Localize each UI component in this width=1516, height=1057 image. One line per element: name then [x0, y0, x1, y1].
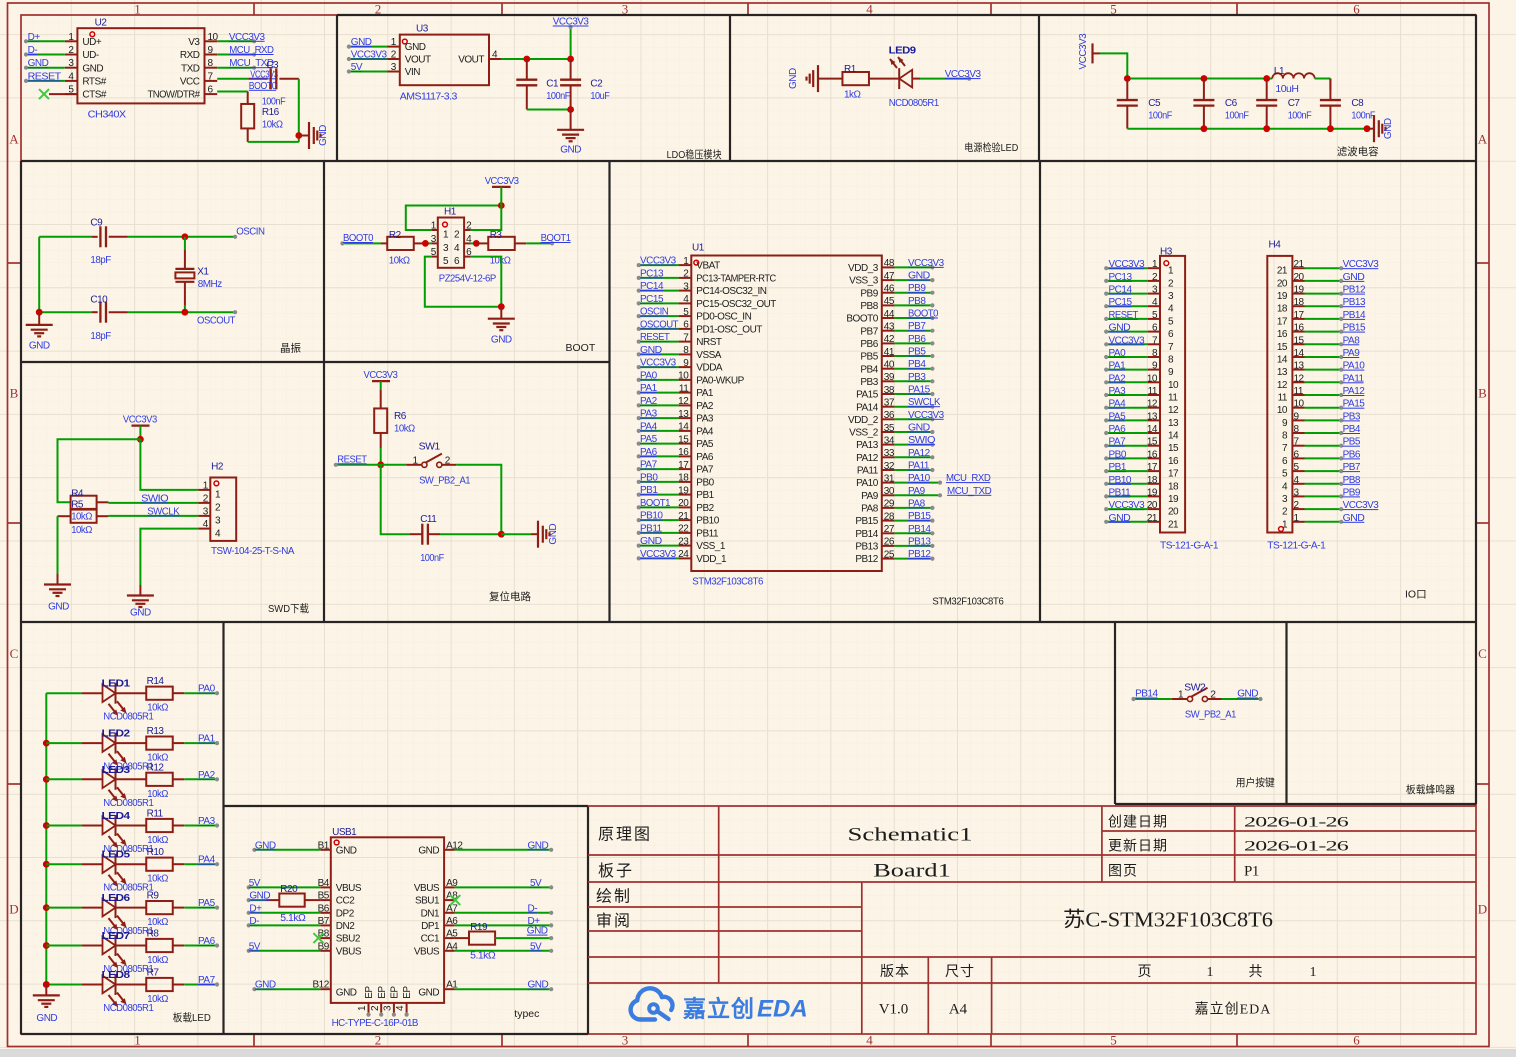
svg-text:D-: D-	[28, 45, 38, 56]
svg-text:29: 29	[884, 499, 895, 510]
svg-text:OSCIN: OSCIN	[236, 227, 265, 238]
svg-text:VDD_2: VDD_2	[848, 415, 879, 426]
svg-text:PA10: PA10	[1343, 361, 1366, 372]
H3 pin 16 net PB0	[1104, 449, 1179, 467]
svg-text:V1.0: V1.0	[879, 1002, 909, 1018]
svg-text:8MHz: 8MHz	[198, 279, 222, 290]
svg-text:CTS#: CTS#	[82, 90, 107, 101]
svg-text:VCC3V3: VCC3V3	[640, 358, 677, 369]
svg-text:10kΩ: 10kΩ	[147, 835, 169, 846]
svg-text:RXD: RXD	[180, 50, 200, 61]
H4 pin 2 net VCC3V3	[1282, 500, 1379, 517]
resistor R20 5.1k to CC2	[247, 884, 321, 924]
H3 pin 9 net PA1	[1104, 361, 1174, 379]
svg-text:10: 10	[1168, 380, 1179, 391]
svg-text:20: 20	[1294, 272, 1305, 283]
svg-text:PB5: PB5	[908, 347, 926, 358]
svg-text:R13: R13	[147, 726, 165, 737]
H4 pin 13 net PA10	[1277, 361, 1365, 379]
svg-text:PB6: PB6	[1343, 449, 1361, 460]
svg-text:D: D	[9, 902, 18, 917]
svg-text:5: 5	[1110, 1033, 1117, 1048]
svg-text:GND: GND	[491, 335, 512, 346]
wire L1 to C8	[1315, 79, 1331, 91]
svg-text:PA2: PA2	[696, 401, 714, 412]
no-connect X SBU2 B8	[313, 933, 323, 943]
svg-text:PB10: PB10	[696, 516, 719, 527]
wire PA2	[184, 770, 219, 782]
svg-text:板子: 板子	[598, 862, 634, 880]
U1 pin 28 PB15 / net PB15	[855, 511, 934, 527]
svg-text:STM32F103C8T6: STM32F103C8T6	[932, 596, 1003, 608]
svg-text:共: 共	[1249, 964, 1264, 980]
wire H1 pin4 to R3	[471, 240, 480, 247]
U1 pin 47 VSS_3 / net GND	[849, 271, 934, 287]
svg-text:BOOT: BOOT	[566, 342, 596, 354]
wire PA3	[184, 816, 219, 828]
H3 pin 1 net VCC3V3	[1104, 259, 1174, 277]
svg-text:PB14: PB14	[1135, 689, 1158, 700]
svg-text:VCC3V3: VCC3V3	[908, 258, 945, 269]
svg-text:图页: 图页	[1108, 865, 1138, 880]
svg-text:VOUT: VOUT	[458, 55, 484, 66]
wire 5V B9	[247, 941, 321, 953]
svg-text:R14: R14	[147, 676, 165, 687]
svg-text:VCC3V3: VCC3V3	[485, 176, 520, 187]
svg-text:嘉立创EDA: 嘉立创EDA	[1195, 1002, 1272, 1018]
LED LED8 NCD0805R1	[46, 969, 154, 1014]
svg-text:DP2: DP2	[336, 908, 355, 919]
svg-text:VIN: VIN	[405, 67, 420, 78]
wire RESET pin4	[24, 71, 65, 83]
U1 pin 8 VSSA / net GND	[637, 345, 722, 361]
svg-text:1: 1	[1310, 965, 1317, 980]
svg-text:R12: R12	[147, 762, 165, 773]
U1 pin 35 VSS_2 / net GND	[849, 423, 934, 439]
svg-text:H1: H1	[444, 207, 457, 218]
svg-text:15: 15	[1277, 342, 1288, 353]
svg-text:PB7: PB7	[908, 321, 926, 332]
svg-text:43: 43	[884, 322, 895, 333]
svg-text:21: 21	[1168, 519, 1179, 530]
U1 pin 11 PA1 / net PA1	[637, 383, 714, 399]
svg-text:PB5: PB5	[1343, 437, 1361, 448]
resistor R19 5.1k to CC1	[455, 922, 554, 962]
resistor R16 10k	[241, 92, 283, 142]
svg-text:板载LED: 板载LED	[173, 1011, 211, 1024]
svg-text:VDDA: VDDA	[696, 363, 723, 374]
U1 pin 39 PB3 / net PB3	[860, 372, 934, 388]
svg-text:47: 47	[884, 271, 895, 282]
svg-text:1kΩ: 1kΩ	[844, 90, 862, 101]
wire GND A12	[455, 840, 554, 852]
svg-text:R7: R7	[147, 968, 160, 979]
svg-text:GND: GND	[336, 988, 357, 999]
USB1 pin A6 DP1	[421, 916, 458, 932]
power flag VCC3V3 (filter)	[1078, 33, 1100, 70]
resistor R1 1k	[842, 64, 869, 101]
svg-text:39: 39	[884, 372, 895, 383]
svg-text:NCD0805R1: NCD0805R1	[889, 98, 940, 109]
svg-text:10: 10	[1294, 399, 1305, 410]
svg-text:BOOT0: BOOT0	[908, 309, 939, 320]
svg-text:电源检验LED: 电源检验LED	[964, 141, 1018, 154]
svg-text:19: 19	[1147, 487, 1158, 498]
svg-text:48: 48	[884, 258, 895, 269]
svg-text:BOOT1: BOOT1	[640, 498, 671, 509]
H3 pin 18 net PB10	[1104, 475, 1179, 493]
svg-text:GND: GND	[560, 145, 581, 156]
U1 pin 23 VSS_1 / net GND	[637, 536, 726, 552]
svg-text:PA8: PA8	[1343, 335, 1361, 346]
resistor R12 10k	[115, 762, 184, 800]
svg-text:PB13: PB13	[855, 542, 878, 553]
svg-text:27: 27	[884, 524, 895, 535]
resistor R8 10k	[115, 929, 184, 967]
svg-text:PC14-OSC32_IN: PC14-OSC32_IN	[696, 286, 766, 297]
svg-text:PB8: PB8	[908, 296, 926, 307]
svg-text:HC-TYPE-C-16P-01B: HC-TYPE-C-16P-01B	[332, 1018, 419, 1029]
svg-text:PA15: PA15	[856, 390, 879, 401]
USB1 pin A7 DN1	[421, 903, 459, 919]
H4 pin 18 net PB13	[1277, 297, 1366, 315]
H3 pin 11 net PA3	[1104, 386, 1178, 404]
svg-text:GND: GND	[29, 341, 50, 352]
svg-text:VBUS: VBUS	[336, 946, 362, 957]
USB1 pin B9 VBUS	[318, 941, 362, 957]
USB1 pin A5 CC1	[421, 929, 459, 945]
U1 pin 1 VBAT / net VCC3V3	[637, 256, 720, 272]
svg-text:原理图: 原理图	[598, 827, 652, 844]
resistor R13 10k	[115, 726, 184, 764]
svg-text:PB15: PB15	[908, 511, 931, 522]
svg-text:PA11: PA11	[1343, 373, 1365, 384]
wire D+ B6	[247, 903, 321, 915]
svg-text:18: 18	[1168, 481, 1179, 492]
H4 pin 17 net PB14	[1277, 310, 1366, 328]
svg-text:RESET: RESET	[28, 71, 61, 82]
USB1 pin A12 GND	[418, 840, 463, 856]
USB1 pin A9 VBUS	[414, 878, 458, 894]
svg-text:PA9: PA9	[908, 486, 926, 497]
resistor R9 10k	[115, 891, 184, 929]
svg-text:GND: GND	[351, 37, 372, 48]
svg-text:C: C	[1478, 646, 1487, 661]
capacitor C6 100nF	[1193, 79, 1248, 129]
svg-text:19: 19	[1168, 494, 1179, 505]
svg-text:VCC3V3: VCC3V3	[945, 69, 982, 80]
svg-text:用户按键: 用户按键	[1236, 776, 1275, 789]
svg-text:PA3: PA3	[198, 816, 216, 827]
wire D+ pin1	[24, 32, 65, 44]
svg-text:GND: GND	[130, 608, 151, 619]
U1 pin 17 PA7 / net PA7	[637, 460, 714, 476]
svg-text:STM32F103C8T6: STM32F103C8T6	[692, 577, 764, 588]
svg-text:PB11: PB11	[696, 529, 719, 540]
capacitor C1 100nF	[516, 59, 570, 110]
svg-text:SW1: SW1	[419, 442, 441, 453]
svg-text:10kΩ: 10kΩ	[147, 874, 169, 885]
svg-text:19: 19	[678, 485, 689, 496]
svg-text:尺寸: 尺寸	[945, 964, 975, 980]
svg-text:VCC3V3: VCC3V3	[640, 256, 677, 267]
svg-text:R19: R19	[470, 922, 488, 933]
svg-text:VCC3V3: VCC3V3	[1109, 335, 1146, 346]
svg-text:PB0: PB0	[696, 478, 714, 489]
svg-text:PB13: PB13	[1343, 297, 1366, 308]
svg-text:PA15: PA15	[1343, 399, 1366, 410]
H3 pin 10 net PA2	[1104, 373, 1179, 391]
svg-text:GND: GND	[640, 345, 662, 356]
wire D- pin2	[24, 45, 65, 57]
svg-text:21: 21	[1277, 266, 1288, 277]
U1 pin 38 PA15 / net PA15	[856, 385, 934, 401]
svg-text:PC15: PC15	[1109, 297, 1133, 308]
svg-text:GND: GND	[36, 1013, 57, 1024]
svg-text:14: 14	[1294, 348, 1305, 359]
svg-text:PA11: PA11	[857, 466, 879, 477]
svg-text:RESET: RESET	[1109, 310, 1139, 321]
svg-text:30: 30	[884, 486, 895, 497]
svg-text:VBUS: VBUS	[414, 946, 440, 957]
svg-text:B: B	[1478, 386, 1487, 401]
USB1 pin B7 DN2	[318, 916, 356, 932]
svg-text:R1: R1	[844, 64, 857, 75]
svg-text:GND: GND	[418, 845, 439, 856]
svg-text:PZ254V-12-6P: PZ254V-12-6P	[439, 274, 497, 285]
svg-text:VDD_1: VDD_1	[696, 554, 727, 565]
H4 pin 15 net PA8	[1277, 335, 1360, 353]
svg-text:36: 36	[884, 410, 895, 421]
svg-text:38: 38	[884, 385, 895, 396]
svg-text:17: 17	[678, 460, 689, 471]
svg-text:LDO稳压模块: LDO稳压模块	[667, 148, 722, 161]
USB1 pin B12 GND	[313, 980, 357, 999]
svg-text:EP: EP	[377, 986, 388, 999]
svg-text:PB15: PB15	[1343, 323, 1366, 334]
U1 pin 34 PA13 / net SWIO	[856, 435, 936, 451]
svg-text:12: 12	[1147, 399, 1158, 410]
svg-text:板载蜂鸣器: 板载蜂鸣器	[1406, 783, 1455, 796]
svg-text:11: 11	[679, 383, 689, 394]
svg-text:21: 21	[678, 511, 689, 522]
svg-text:GND: GND	[336, 845, 357, 856]
svg-text:绘制: 绘制	[596, 888, 632, 906]
svg-text:5.1kΩ: 5.1kΩ	[470, 951, 496, 962]
svg-text:Board1: Board1	[873, 861, 951, 882]
svg-text:EP: EP	[402, 986, 413, 999]
svg-text:PA7: PA7	[198, 975, 216, 986]
power flag VCC3V3 (BOOT)	[485, 176, 520, 196]
svg-text:GND: GND	[548, 524, 559, 545]
svg-text:LED7: LED7	[102, 930, 131, 942]
node VCC3V3 top	[553, 17, 590, 60]
svg-text:37: 37	[884, 398, 895, 409]
svg-text:PB14: PB14	[855, 529, 878, 540]
svg-text:UD-: UD-	[82, 50, 98, 61]
U1 pin 14 PA4 / net PA4	[637, 421, 714, 437]
wire MCU_TXD pin8	[217, 58, 274, 70]
crystal X1 8MHz	[175, 237, 222, 312]
svg-text:GND: GND	[1109, 513, 1131, 524]
svg-text:LED1: LED1	[102, 678, 131, 690]
wire PA6	[184, 936, 219, 948]
svg-text:SBU1: SBU1	[415, 896, 440, 907]
svg-text:17: 17	[1147, 462, 1158, 473]
H4 pin 16 net PB15	[1277, 323, 1366, 341]
capacitor C8 100nF	[1320, 79, 1375, 129]
svg-text:页: 页	[1138, 965, 1153, 980]
svg-text:TSW-104-25-T-S-NA: TSW-104-25-T-S-NA	[211, 546, 295, 557]
svg-text:34: 34	[884, 435, 895, 446]
svg-text:PB3: PB3	[1343, 411, 1361, 422]
svg-text:15: 15	[1147, 437, 1158, 448]
svg-text:18: 18	[1277, 304, 1288, 315]
wire PA5	[184, 898, 219, 910]
U1 pin 12 PA2 / net PA2	[637, 396, 714, 412]
wire SW1 to C11 right	[456, 465, 501, 534]
svg-text:100nF: 100nF	[546, 91, 570, 102]
U1 pin 16 PA6 / net PA6	[637, 447, 714, 463]
svg-text:RESET: RESET	[640, 332, 670, 343]
U1 pin 33 PA12 / net PA12	[856, 448, 934, 464]
U1 pin 2 PC13-TAMPER-RTC / net PC13	[637, 268, 776, 284]
svg-text:复位电路: 复位电路	[489, 590, 531, 603]
svg-text:18: 18	[678, 473, 689, 484]
U1 pin 15 PA5 / net PA5	[637, 434, 714, 450]
svg-text:PB6: PB6	[860, 339, 878, 350]
U1 pin 32 PA11 / net PA11	[857, 461, 935, 477]
USB1 pin EP3	[383, 986, 401, 1017]
svg-text:PB12: PB12	[855, 554, 878, 565]
svg-text:C9: C9	[90, 218, 103, 229]
svg-text:PB15: PB15	[855, 516, 878, 527]
svg-text:OSCOUT: OSCOUT	[640, 319, 678, 330]
ground GND (U2)	[299, 122, 329, 149]
svg-text:PA0-WKUP: PA0-WKUP	[696, 376, 744, 387]
U1 pin 22 PB11 / net PB11	[637, 523, 719, 539]
svg-text:MCU_TXD: MCU_TXD	[947, 486, 992, 497]
svg-text:审阅: 审阅	[596, 912, 632, 930]
wire D+ A6	[455, 916, 554, 928]
svg-text:PA3: PA3	[696, 414, 714, 425]
svg-text:20: 20	[1147, 500, 1158, 511]
svg-text:PD1-OSC_OUT: PD1-OSC_OUT	[696, 325, 762, 336]
U1 pin 37 PA14 / net SWCLK	[856, 397, 941, 413]
svg-text:PB3: PB3	[908, 372, 926, 383]
svg-text:UD+: UD+	[82, 37, 101, 48]
svg-text:10kΩ: 10kΩ	[147, 789, 169, 800]
capacitor C11 100nF	[410, 514, 444, 564]
U1 pin 42 PB6 / net PB6	[860, 334, 934, 350]
svg-text:PA6: PA6	[640, 447, 658, 458]
resistor R6 10k	[374, 390, 415, 448]
svg-text:46: 46	[884, 284, 895, 295]
wire SWIO	[108, 493, 198, 504]
svg-text:15: 15	[678, 434, 689, 445]
svg-text:PA2: PA2	[1109, 373, 1127, 384]
svg-text:VCC3V3: VCC3V3	[640, 549, 677, 560]
svg-text:C7: C7	[1288, 98, 1301, 109]
svg-text:VCC: VCC	[180, 77, 200, 88]
wire VCC3V3 pin10	[217, 32, 265, 44]
U1 pin 20 PB2 / net BOOT1	[637, 498, 715, 514]
svg-text:GND: GND	[1383, 118, 1394, 139]
U1 pin 43 PB7 / net PB7	[860, 321, 934, 337]
svg-text:PD0-OSC_IN: PD0-OSC_IN	[696, 312, 751, 323]
H4 pin 20 net GND	[1277, 272, 1365, 290]
wire OSCIN	[128, 227, 265, 241]
LED LED5 NCD0805R1	[46, 849, 154, 894]
svg-text:PB1: PB1	[640, 485, 658, 496]
svg-text:R20: R20	[280, 884, 298, 895]
wire GND pin3	[24, 58, 65, 70]
U1 pin 10 PA0-WKUP / net PA0	[637, 370, 745, 386]
H4 pin 8 net PB4	[1282, 424, 1361, 442]
svg-text:PC14: PC14	[1109, 285, 1133, 296]
wire VOUT bus	[502, 56, 574, 63]
capacitor C10 18pF	[39, 295, 127, 343]
svg-text:VBUS: VBUS	[414, 883, 440, 894]
svg-text:VCC3V3: VCC3V3	[908, 410, 945, 421]
H4 pin 4 net PB8	[1282, 475, 1361, 493]
svg-text:R16: R16	[262, 107, 280, 118]
svg-text:6: 6	[1353, 1033, 1360, 1048]
LED LED1 NCD0805R1	[46, 678, 154, 723]
H4 pin 3 net PB9	[1282, 487, 1361, 505]
H3 pin 19 net PB11	[1104, 487, 1179, 505]
svg-text:10kΩ: 10kΩ	[394, 424, 416, 435]
svg-text:MCU_RXD: MCU_RXD	[946, 473, 991, 484]
svg-text:CC2: CC2	[336, 896, 355, 907]
svg-text:14: 14	[1168, 431, 1179, 442]
wire R2 to H1 pin3	[422, 240, 431, 247]
USB1 pin B4 VBUS	[318, 878, 362, 894]
svg-text:10kΩ: 10kΩ	[147, 994, 169, 1005]
svg-text:PC14: PC14	[640, 281, 664, 292]
svg-text:GND: GND	[82, 63, 103, 74]
H3 pin 3 net PC14	[1104, 285, 1174, 303]
svg-text:LED9: LED9	[889, 45, 917, 57]
svg-text:R11: R11	[147, 809, 164, 820]
U1 pin 24 VDD_1 / net VCC3V3	[637, 549, 727, 565]
H3 pin 17 net PB1	[1104, 462, 1179, 480]
svg-text:PA7: PA7	[696, 465, 714, 476]
H4 pin 7 net PB5	[1282, 437, 1361, 455]
USB1 pin A1 GND	[418, 980, 458, 999]
svg-text:19: 19	[1277, 291, 1288, 302]
svg-text:PA1: PA1	[696, 388, 714, 399]
svg-text:SWD下载: SWD下载	[268, 603, 309, 615]
svg-text:PB9: PB9	[860, 288, 878, 299]
USB1 pin B5 CC2	[318, 891, 356, 907]
svg-text:GND: GND	[249, 891, 270, 902]
svg-text:PA6: PA6	[1109, 424, 1127, 435]
svg-text:10kΩ: 10kΩ	[147, 917, 169, 928]
USB1 pin A8 SBU1	[415, 891, 458, 907]
svg-text:SBU2: SBU2	[336, 934, 361, 945]
svg-text:VCC3V3: VCC3V3	[1109, 500, 1146, 511]
ground GND (U3)	[557, 110, 584, 156]
wire RESET label	[334, 454, 381, 467]
svg-text:100nF: 100nF	[262, 97, 286, 108]
svg-text:15: 15	[1294, 335, 1305, 346]
svg-text:D+: D+	[249, 903, 262, 914]
USB1 pin EP2	[370, 986, 388, 1017]
wire R5 to GND	[57, 516, 59, 574]
svg-text:PA4: PA4	[1109, 399, 1127, 410]
svg-text:C1: C1	[546, 79, 559, 90]
